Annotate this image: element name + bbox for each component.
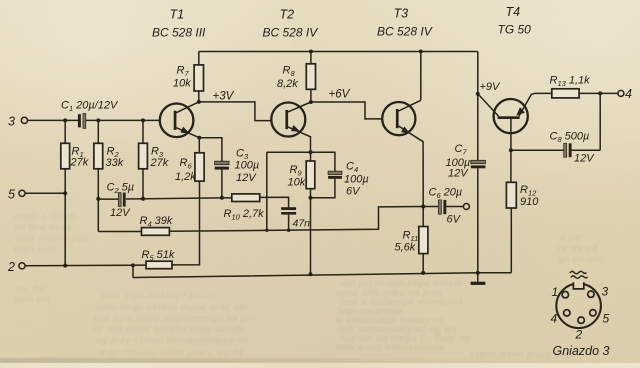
svg-text:5: 5 xyxy=(8,187,15,201)
svg-text:C6 20µ: C6 20µ xyxy=(429,187,463,200)
resistor R2 33k xyxy=(94,120,124,169)
svg-text:5,6k: 5,6k xyxy=(395,242,416,254)
top supply rail xyxy=(199,51,478,53)
junction C3/mid-rail xyxy=(220,196,224,200)
junction T4 collector/+9V line xyxy=(476,92,480,96)
wire 47n bottom to feedback wire xyxy=(288,215,290,231)
junction R9/C4 bottom xyxy=(309,196,313,200)
resistor R13 1.1k xyxy=(535,75,591,98)
capacitor 47n xyxy=(281,207,310,229)
capacitor C3 100u 12V xyxy=(215,148,260,198)
wire R2 bottom to C2 node xyxy=(97,169,99,199)
junction terminal5/R1 line xyxy=(63,191,67,195)
transistor T1 type label xyxy=(152,8,206,40)
wire R5 right to R6 bottom xyxy=(172,181,200,265)
wire T2 emitter right to C4 xyxy=(311,152,335,171)
capacitor C7 100u 12V xyxy=(446,143,486,180)
svg-text:3: 3 xyxy=(602,285,609,299)
wire R10 right to 47n cap xyxy=(260,197,289,207)
svg-text:12V: 12V xyxy=(448,168,469,180)
bottom ground rail xyxy=(133,273,511,278)
resistor R6 1.2k xyxy=(175,153,204,183)
wire R3 bottom to mid rail xyxy=(142,169,144,199)
svg-text:5: 5 xyxy=(603,312,610,326)
node R2 top junction xyxy=(96,118,100,122)
wire C8 node up to output xyxy=(599,93,601,150)
node R1 top junction xyxy=(63,118,67,122)
DIN pin 5 hole xyxy=(590,310,596,316)
svg-text:Gniazdo 3: Gniazdo 3 xyxy=(553,344,610,358)
svg-text:T2: T2 xyxy=(280,8,295,22)
junction 47n/feedback wire xyxy=(287,229,290,232)
svg-text:6V: 6V xyxy=(346,186,361,198)
bottom rail drop from terminal2 wire xyxy=(132,265,134,277)
junction R3/mid-rail xyxy=(141,197,145,201)
node T3 emitter xyxy=(421,205,425,209)
wire R12 bottom to ground rail xyxy=(510,208,512,273)
junction feedback vertical/R4 wire xyxy=(265,229,268,232)
terminal 4 (output) xyxy=(618,87,632,101)
junction ground node xyxy=(476,271,480,275)
capacitor C8 500u 12V xyxy=(511,131,600,165)
svg-text:T3: T3 xyxy=(394,7,409,21)
svg-text:27k: 27k xyxy=(70,157,89,169)
svg-text:12V: 12V xyxy=(110,207,131,219)
svg-text:R13 1,1k: R13 1,1k xyxy=(550,75,591,88)
node T1 collector xyxy=(197,100,201,104)
svg-text:T1: T1 xyxy=(170,8,185,22)
wire C7 bottom to ground xyxy=(477,168,479,273)
capacitor C6 20u 6V xyxy=(423,187,463,226)
DIN pin 2 hole xyxy=(578,317,584,323)
svg-text:R10 2,7k: R10 2,7k xyxy=(224,208,265,221)
feedback vertical to R4 wire xyxy=(266,152,268,230)
svg-text:R4 39k: R4 39k xyxy=(140,215,173,228)
node T2 collector xyxy=(309,100,313,104)
wire R1 bottom to terminal2 wire xyxy=(64,169,66,266)
svg-text:12V: 12V xyxy=(236,172,257,184)
svg-text:BC 528 IV: BC 528 IV xyxy=(377,25,433,39)
svg-text:C2 5µ: C2 5µ xyxy=(107,182,135,195)
ground symbol xyxy=(471,273,486,285)
bottom scan shadow (decorative) xyxy=(0,358,640,363)
wire T2 emitter left to feedback vertical xyxy=(267,151,311,153)
resistor R7 10k xyxy=(173,52,204,102)
svg-text:2: 2 xyxy=(7,260,15,274)
svg-text:27k: 27k xyxy=(150,157,169,169)
paper bleed-through texture (decorative) xyxy=(14,211,604,360)
junction R9/ground rail xyxy=(309,272,313,276)
junction R1 line / terminal2 wire xyxy=(63,264,67,268)
resistor R11 5.6k xyxy=(395,207,428,254)
AC squiggle symbol above DIN socket xyxy=(570,271,588,278)
resistor R1 27k xyxy=(61,120,89,168)
junction R2/C2/R4 node xyxy=(96,197,100,201)
capacitor C2 5u 12V xyxy=(107,182,135,220)
mid rail segment left of C2 xyxy=(98,198,118,200)
node T1 emitter xyxy=(197,136,201,140)
svg-text:1,2k: 1,2k xyxy=(175,171,196,183)
svg-text:33k: 33k xyxy=(106,157,124,169)
svg-text:910: 910 xyxy=(520,196,539,208)
wire R11 bottom to ground rail xyxy=(422,254,424,273)
svg-text:4: 4 xyxy=(625,87,632,101)
resistor R10 2.7k xyxy=(224,194,265,221)
svg-text:100µ: 100µ xyxy=(344,174,369,186)
terminal 2 xyxy=(7,260,25,274)
wire terminal3 to C1 xyxy=(28,119,79,121)
+6V supply wire T2 collector to T3 base xyxy=(311,102,383,119)
svg-text:10k: 10k xyxy=(173,78,191,90)
svg-text:3: 3 xyxy=(8,115,15,129)
terminal 5 xyxy=(8,187,25,201)
svg-text:8,2k: 8,2k xyxy=(277,78,298,90)
transistor T4 type label xyxy=(498,5,532,37)
svg-text:C8 500µ: C8 500µ xyxy=(550,131,590,144)
svg-text:100µ: 100µ xyxy=(235,160,260,172)
junction bottom-rail drop xyxy=(131,263,135,267)
svg-text:12V: 12V xyxy=(574,153,595,165)
capacitor C4 100u 6V xyxy=(311,161,369,198)
wire T3 collector to top rail xyxy=(420,52,422,101)
svg-text:TG 50: TG 50 xyxy=(498,23,532,37)
svg-text:2: 2 xyxy=(575,328,583,342)
transistor T2 xyxy=(271,102,311,152)
node R3 top junction xyxy=(141,118,145,122)
svg-text:+6V: +6V xyxy=(329,89,351,101)
junction R8/top rail xyxy=(309,50,313,54)
svg-text:BC 528 III: BC 528 III xyxy=(152,26,206,40)
feedback wire R4 to T3 emitter jog xyxy=(169,207,423,232)
transistor T2 type label xyxy=(263,8,319,40)
+3V supply wire T1 collector to T2 base xyxy=(199,102,272,121)
transistor T4 xyxy=(478,93,535,133)
transistor T3 xyxy=(382,100,423,206)
wire R13 to terminal 4 xyxy=(579,92,618,94)
wire to R4 left xyxy=(98,231,141,233)
mid rail C2 to R10 with C3 tap xyxy=(126,198,232,199)
node T2 emitter xyxy=(309,150,313,154)
transistor T3 type label xyxy=(377,7,433,39)
junction T3 collector/top rail xyxy=(419,50,423,54)
wire down to R4 xyxy=(97,199,99,232)
resistor R12 910 xyxy=(506,150,539,208)
svg-text:+9V: +9V xyxy=(480,81,502,93)
junction R11/ground rail xyxy=(421,271,425,275)
svg-text:BC 528 IV: BC 528 IV xyxy=(263,26,319,40)
wire T4 base down xyxy=(510,119,512,150)
svg-text:+3V: +3V xyxy=(213,91,235,103)
DIN pin 4 hole xyxy=(564,310,570,316)
terminal 3 (input) xyxy=(8,115,28,129)
svg-text:4: 4 xyxy=(551,312,558,326)
transistor T1 xyxy=(160,102,200,138)
wire terminal2 to R5 xyxy=(25,264,146,267)
wire T1 emitter to R6 xyxy=(198,138,200,153)
DIN pin 1 hole xyxy=(562,292,568,298)
resistor R5 51k xyxy=(142,249,175,269)
resistor R8 8.2k xyxy=(277,52,316,103)
junction T4 base/R12/C8 xyxy=(509,148,513,152)
svg-text:T4: T4 xyxy=(506,5,521,19)
resistor R4 39k xyxy=(140,215,173,235)
wire top rail down to C7 xyxy=(477,52,479,161)
svg-text:10k: 10k xyxy=(288,177,306,189)
svg-text:1: 1 xyxy=(552,285,559,299)
wire R9 bottom to ground rail xyxy=(310,189,312,275)
wire C1 to T1 base xyxy=(86,119,160,121)
wire T1 emitter to C3 xyxy=(199,138,222,162)
DIN pin 3 hole xyxy=(588,291,594,297)
svg-text:R5 51k: R5 51k xyxy=(142,249,175,262)
DIN socket Gniazdo 3 outline xyxy=(556,281,601,329)
svg-text:47n: 47n xyxy=(293,218,311,230)
terminal after C6 xyxy=(463,204,469,210)
capacitor C1 20u/12V xyxy=(61,100,119,129)
svg-text:6V: 6V xyxy=(447,214,462,226)
wire terminal5 to R1 branch xyxy=(25,192,65,194)
resistor R3 27k xyxy=(139,120,169,169)
junction R13/C8 output node xyxy=(598,91,602,95)
resistor R9 10k xyxy=(288,152,315,189)
